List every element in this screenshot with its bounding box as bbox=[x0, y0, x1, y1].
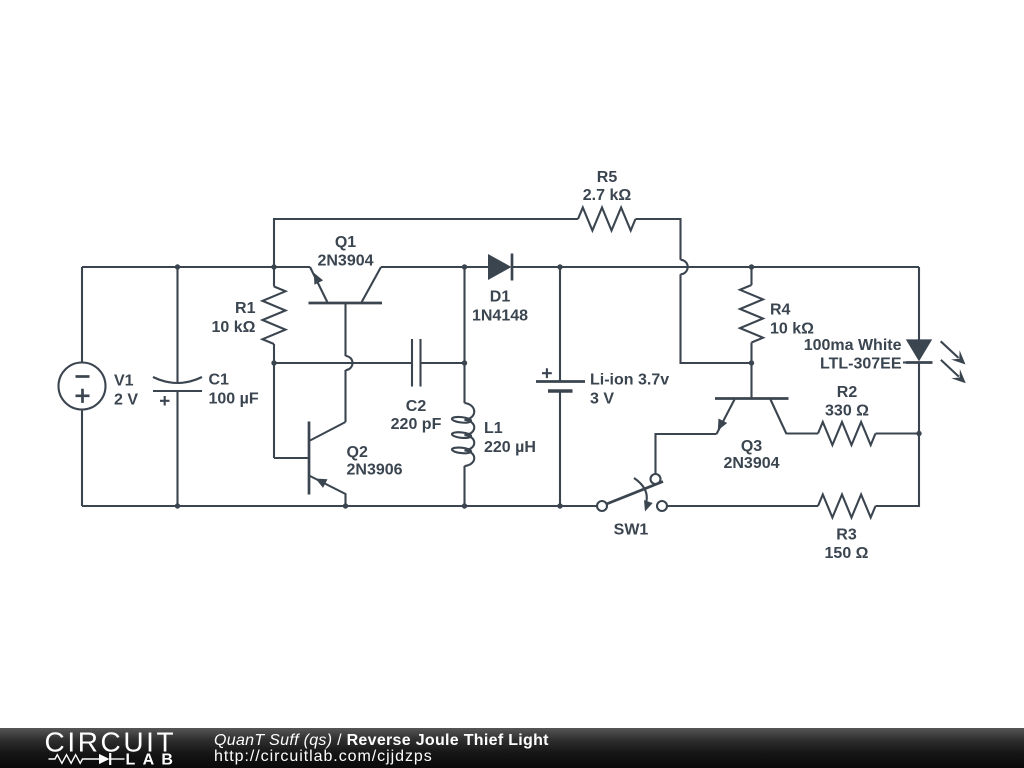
footer bar bbox=[0, 728, 1024, 768]
capacitor C1 bbox=[176, 267, 178, 383]
inductor L1 bbox=[465, 403, 475, 466]
diode D1 bbox=[488, 254, 512, 280]
wire main rail right segment bbox=[512, 266, 919, 268]
resistor R2 bbox=[818, 422, 876, 445]
wire top R5 branch left bbox=[274, 219, 578, 267]
svg-text:Q1: Q1 bbox=[335, 234, 356, 251]
svg-text:D1: D1 bbox=[490, 289, 511, 306]
svg-text:2N3904: 2N3904 bbox=[317, 253, 373, 270]
svg-text:10 kΩ: 10 kΩ bbox=[212, 319, 256, 336]
wire bottom rail bbox=[82, 505, 597, 507]
wire main rail left segment bbox=[82, 266, 310, 268]
wire R5 right lead down bbox=[636, 219, 681, 260]
wire SW1 to R3 bbox=[667, 505, 818, 507]
svg-text:1N4148: 1N4148 bbox=[472, 308, 528, 325]
svg-text:100 µF: 100 µF bbox=[209, 391, 259, 408]
LED D2 bbox=[906, 339, 932, 361]
switch SW1 bbox=[597, 501, 607, 511]
svg-text:L1: L1 bbox=[484, 420, 503, 437]
footer url line bbox=[214, 748, 433, 766]
wire Q3 collector to R2 bbox=[787, 432, 819, 434]
svg-text:SW1: SW1 bbox=[614, 522, 649, 539]
resistor R3 bbox=[818, 495, 876, 518]
svg-text:2N3904: 2N3904 bbox=[723, 455, 779, 472]
wire R5 drop to R4 bottom node bbox=[681, 274, 752, 363]
LED light arrow 2 bbox=[941, 360, 959, 377]
CircuitLab logo bbox=[0, 728, 200, 768]
svg-text:2.7 kΩ: 2.7 kΩ bbox=[583, 187, 632, 204]
wire hop of Q1 base over mid rail bbox=[346, 356, 353, 370]
svg-text:V1: V1 bbox=[114, 373, 134, 390]
resistor R5 bbox=[578, 208, 636, 231]
svg-text:LTL-307EE: LTL-307EE bbox=[820, 356, 902, 373]
svg-text:R1: R1 bbox=[235, 300, 256, 317]
LED light arrow 1 bbox=[941, 341, 959, 358]
svg-text:220 µH: 220 µH bbox=[484, 439, 536, 456]
footer title line bbox=[214, 732, 549, 750]
capacitor C2 bbox=[411, 339, 413, 387]
svg-text:100ma White: 100ma White bbox=[804, 337, 902, 354]
svg-text:R5: R5 bbox=[597, 169, 618, 186]
node bottom rail / battery bbox=[557, 503, 562, 508]
Q3 emitter arrow bbox=[718, 419, 727, 431]
node main rail / R1 bbox=[271, 264, 276, 269]
node main rail / R4 bbox=[749, 264, 754, 269]
wire C2-L1 vertical rail bbox=[463, 267, 465, 403]
wire Q3 emitter to SW1 bbox=[656, 434, 717, 474]
svg-text:Q3: Q3 bbox=[741, 438, 762, 455]
node right rail / R2 bbox=[916, 431, 921, 436]
svg-text:R3: R3 bbox=[836, 527, 857, 544]
node bottom rail / L1 bbox=[462, 503, 467, 508]
voltage source V1 bbox=[81, 267, 83, 363]
node R4 bottom / Q3 base bbox=[749, 360, 754, 365]
node main rail / C1 bbox=[175, 264, 180, 269]
logo resistor-diode icon bbox=[49, 755, 100, 764]
node bottom rail / Q2 emitter bbox=[343, 503, 348, 508]
wire right rail top bbox=[918, 267, 920, 340]
svg-text:2 V: 2 V bbox=[114, 392, 138, 409]
transistor Q1 bbox=[309, 302, 383, 305]
node main rail / battery bbox=[557, 264, 562, 269]
svg-text:3 V: 3 V bbox=[590, 391, 614, 408]
wire mid rail y=363 bbox=[274, 362, 412, 364]
wire main rail mid segment bbox=[381, 266, 488, 268]
battery Li-ion bbox=[559, 267, 561, 382]
node main rail / D1 junction bbox=[462, 264, 467, 269]
svg-text:10 kΩ: 10 kΩ bbox=[770, 321, 814, 338]
node mid rail / C2-L1 rail bbox=[462, 360, 467, 365]
svg-text:R2: R2 bbox=[837, 384, 858, 401]
svg-text:220 pF: 220 pF bbox=[391, 416, 442, 433]
transistor Q2 bbox=[308, 422, 311, 495]
svg-text:Li-ion 3.7v: Li-ion 3.7v bbox=[590, 372, 669, 389]
svg-text:Q2: Q2 bbox=[347, 444, 368, 461]
node bottom rail / C1 bbox=[175, 503, 180, 508]
Q2 emitter arrow bbox=[316, 479, 328, 488]
svg-text:C2: C2 bbox=[406, 398, 427, 415]
Q1 emitter arrow bbox=[314, 273, 323, 285]
svg-text:330 Ω: 330 Ω bbox=[825, 403, 869, 420]
svg-text:C1: C1 bbox=[209, 372, 230, 389]
svg-text:R4: R4 bbox=[770, 302, 791, 319]
node mid rail / R1 bbox=[271, 360, 276, 365]
resistor R4 bbox=[750, 267, 752, 285]
wire Q1 base to Q2 collector bbox=[344, 370, 346, 422]
resistor R1 bbox=[273, 267, 275, 287]
svg-text:2N3906: 2N3906 bbox=[347, 462, 403, 479]
wire hop over main rail at x=680.5 bbox=[681, 260, 688, 274]
svg-text:150 Ω: 150 Ω bbox=[825, 545, 869, 562]
svg-text:LAB: LAB bbox=[126, 752, 181, 768]
transistor Q3 bbox=[750, 363, 752, 399]
